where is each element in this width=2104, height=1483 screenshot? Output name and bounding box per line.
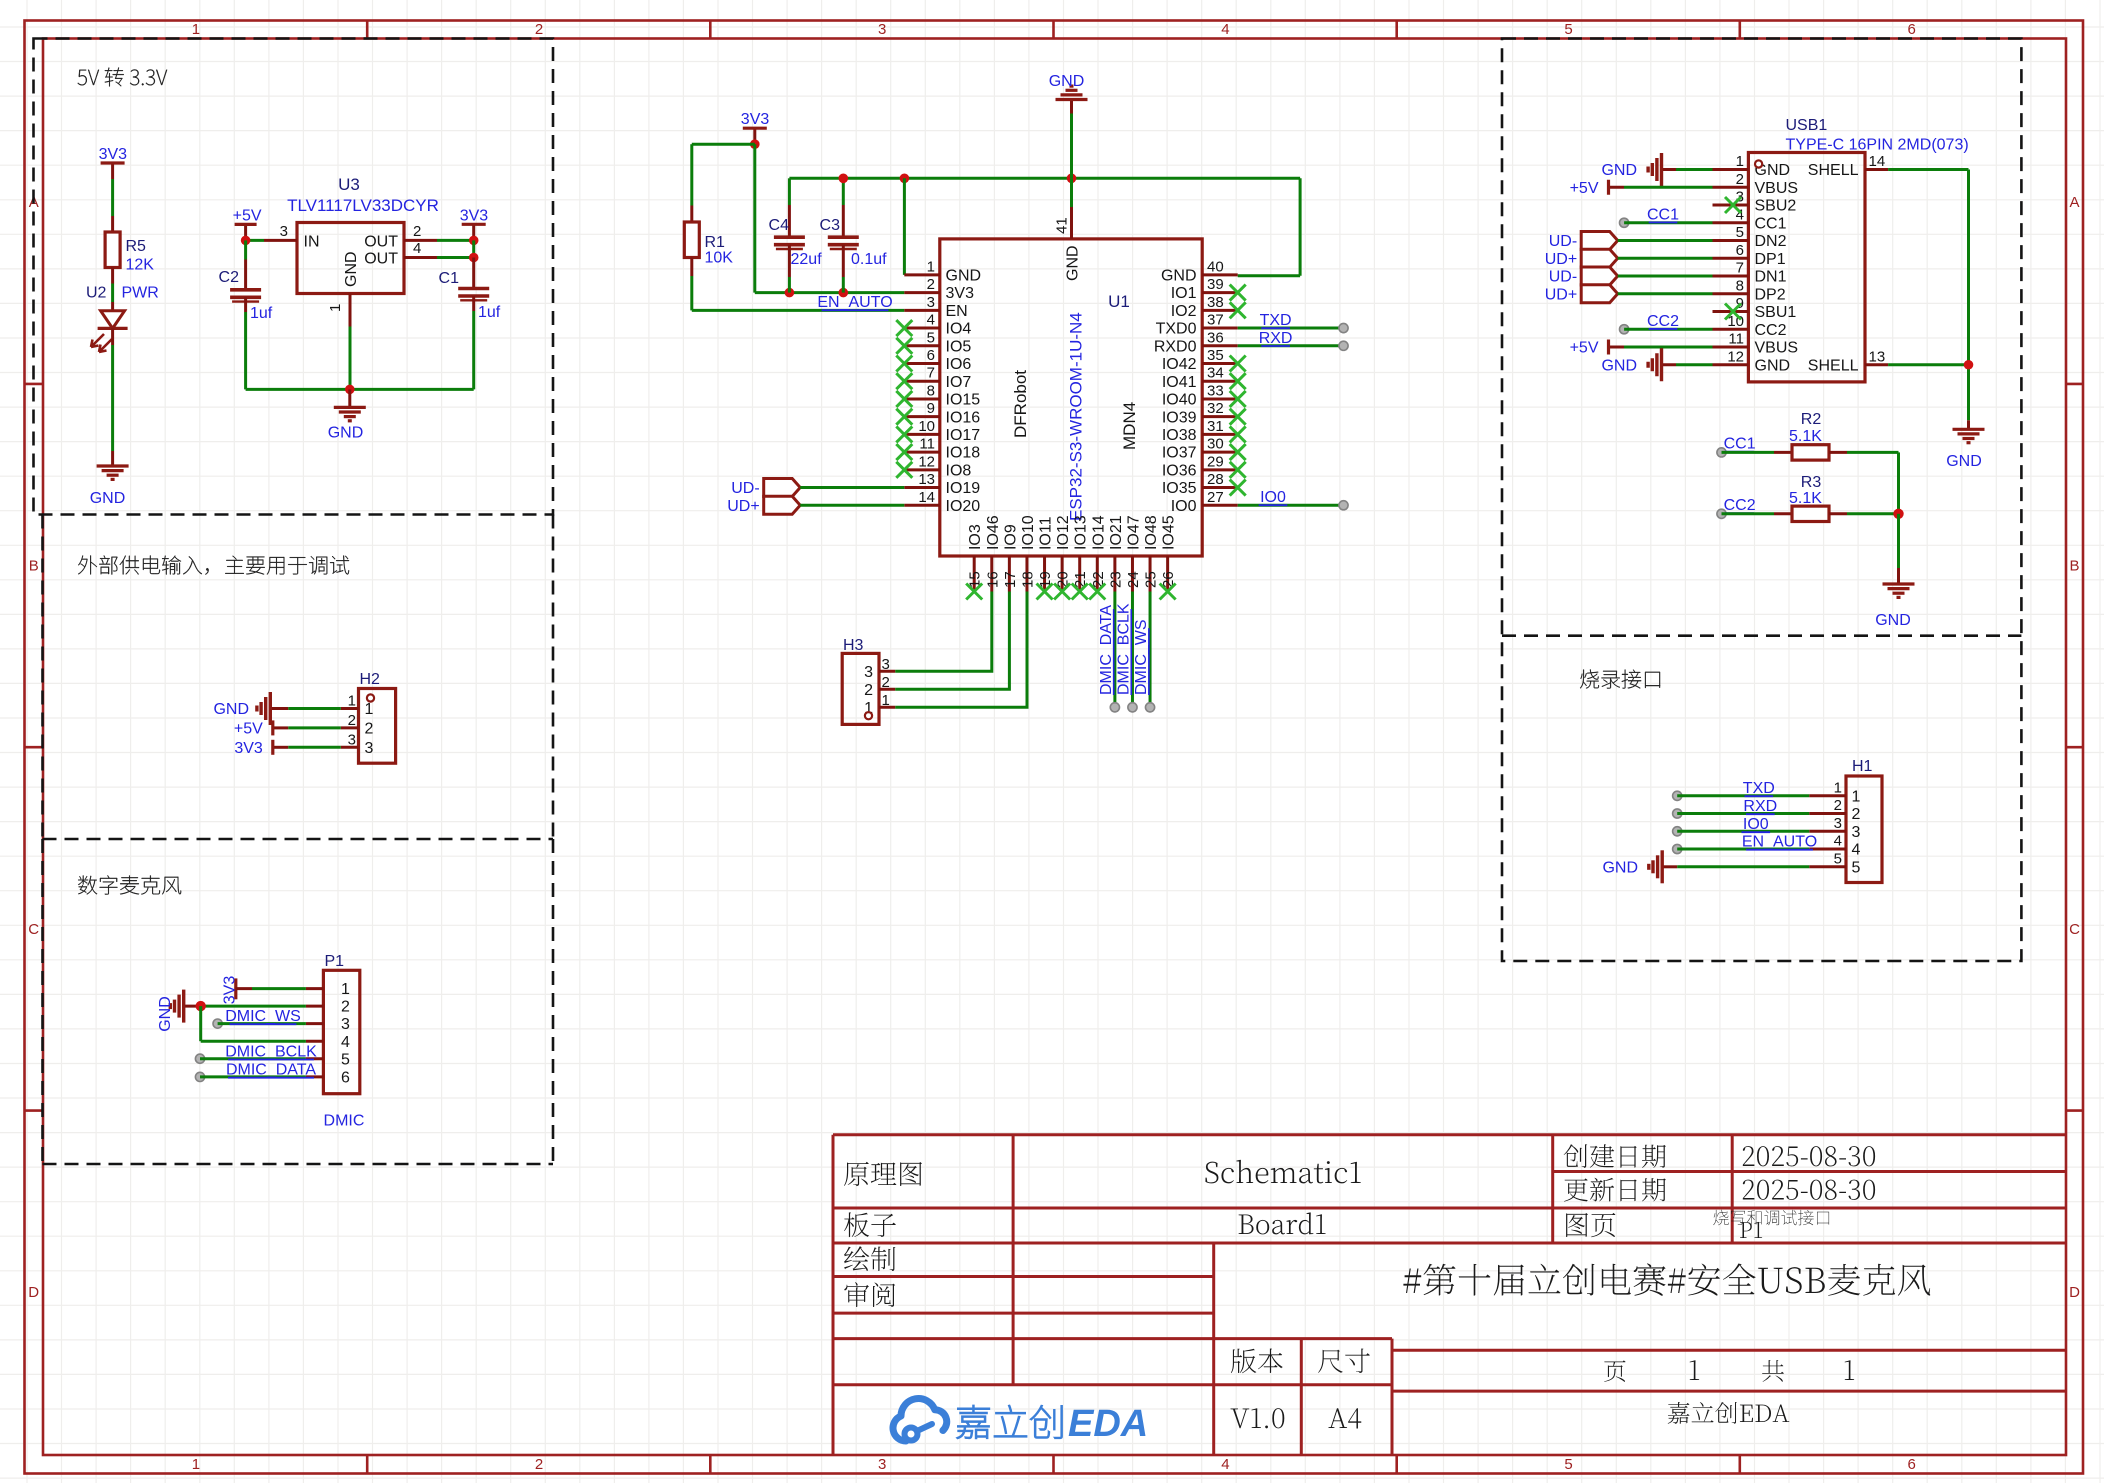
wire DMIC_BCLK (IO47): [1115, 592, 1137, 712]
svg-text:DP2: DP2: [1755, 286, 1786, 303]
wire GND top rail: [789, 174, 1300, 276]
svg-text:+5V: +5V: [234, 721, 263, 738]
wire GND bus (U3 section): [246, 327, 474, 395]
svg-text:U1: U1: [1108, 292, 1130, 311]
svg-text:IO0: IO0: [1743, 816, 1769, 833]
svg-text:1: 1: [927, 258, 935, 275]
wire CC1 to R2: [1717, 436, 1792, 458]
svg-text:UD-: UD-: [1549, 233, 1577, 250]
svg-text:GND: GND: [1946, 453, 1982, 470]
svg-text:GND: GND: [1602, 859, 1638, 876]
svg-text:OUT: OUT: [364, 251, 398, 268]
wire TXD: [1238, 312, 1348, 333]
svg-text:1: 1: [1736, 153, 1744, 170]
svg-text:2: 2: [348, 712, 356, 729]
svg-text:USB1: USB1: [1786, 117, 1828, 134]
svg-text:IO20: IO20: [946, 498, 981, 515]
svg-text:H1: H1: [1852, 758, 1873, 775]
svg-text:25: 25: [1143, 571, 1160, 588]
port flag UD- (DN2): [1549, 232, 1618, 251]
svg-text:40: 40: [1207, 258, 1224, 275]
wire GND to P1 pin2 and pin4: [196, 1001, 306, 1041]
svg-text:29: 29: [1207, 453, 1224, 470]
no-connect mark SBU1: [1725, 304, 1741, 320]
svg-text:17: 17: [1002, 571, 1019, 588]
svg-text:SHELL: SHELL: [1808, 162, 1859, 179]
wire IO0: [1238, 489, 1348, 510]
svg-text:CC1: CC1: [1724, 436, 1756, 453]
wire H3 pin2 to IO9: [895, 592, 1009, 690]
svg-text:+5V: +5V: [1570, 340, 1599, 357]
regulator U3 TLV1117LV33DCYR: [264, 175, 439, 327]
wire 3V3 to H2 pin3: [288, 746, 341, 749]
svg-text:+5V: +5V: [233, 207, 262, 224]
ground flag GND (H1 pin5): [1602, 850, 1677, 883]
wire U3 OUT pin2 to 3V3: [437, 236, 479, 246]
wire SHELL to GND: [1888, 170, 1973, 421]
wire R3 to GND: [1829, 509, 1904, 568]
wire 3V3 to R5: [111, 179, 114, 232]
svg-text:1: 1: [341, 981, 350, 998]
svg-text:C4: C4: [769, 217, 790, 234]
resistor R5: [105, 232, 154, 274]
net label EN_AUTO: [817, 294, 892, 311]
svg-text:TXD: TXD: [1743, 780, 1775, 797]
svg-text:2: 2: [413, 223, 421, 240]
wire U2 to GND: [111, 345, 114, 451]
svg-text:18: 18: [1019, 571, 1036, 588]
svg-text:10: 10: [918, 418, 935, 435]
wire H3 pin3 to IO46: [895, 592, 992, 672]
svg-text:GND: GND: [213, 701, 249, 718]
svg-text:39: 39: [1207, 276, 1224, 293]
svg-text:DMIC: DMIC: [324, 1113, 365, 1130]
svg-text:12: 12: [1727, 348, 1744, 365]
svg-text:3: 3: [280, 223, 288, 240]
port flag UD+ (DP1): [1545, 249, 1618, 268]
svg-text:8: 8: [927, 382, 935, 399]
svg-text:R1: R1: [705, 234, 726, 251]
title block sheet: [1566, 1210, 1829, 1238]
svg-text:3: 3: [365, 740, 374, 757]
svg-text:3: 3: [1834, 815, 1842, 832]
svg-text:5: 5: [1564, 21, 1572, 38]
svg-text:R5: R5: [126, 238, 147, 255]
wire UD+ to DP1: [1618, 257, 1713, 260]
svg-text:5: 5: [1736, 224, 1744, 241]
LED U2 PWR: [86, 285, 159, 353]
svg-text:RXD0: RXD0: [1154, 338, 1197, 355]
svg-text:B: B: [29, 558, 39, 575]
power flag 3V3 (U3 output): [460, 207, 489, 240]
svg-text:PWR: PWR: [122, 285, 159, 302]
svg-text:5.1K: 5.1K: [1789, 428, 1822, 445]
svg-text:5: 5: [927, 329, 935, 346]
label DMIC: [324, 1113, 365, 1130]
svg-text:GND: GND: [1755, 357, 1791, 374]
svg-text:UD-: UD-: [731, 480, 759, 497]
wire CC2 to R3: [1717, 497, 1792, 518]
svg-text:6: 6: [341, 1070, 350, 1087]
port flag UD+ (DP2): [1545, 285, 1618, 304]
wire UD+ to IO20: [800, 504, 904, 507]
svg-text:4: 4: [413, 240, 421, 257]
svg-text:IO16: IO16: [946, 409, 981, 426]
module U1 ESP32-S3-WROOM-1U-N4: [904, 178, 1237, 591]
svg-text:RXD: RXD: [1259, 330, 1293, 347]
svg-text:2: 2: [535, 1456, 543, 1473]
wire UD- to DN2: [1618, 239, 1713, 242]
svg-text:IO19: IO19: [946, 480, 981, 497]
wire EN net: [692, 309, 905, 312]
title block vendor: [1668, 1402, 1790, 1424]
port flag UD- (IO19): [731, 479, 800, 498]
svg-text:4: 4: [1834, 833, 1842, 850]
svg-text:GND: GND: [343, 251, 360, 287]
svg-text:6: 6: [1908, 1456, 1916, 1473]
svg-text:SBU1: SBU1: [1755, 304, 1797, 321]
port flag UD+ (IO20): [727, 496, 800, 515]
svg-text:U3: U3: [338, 175, 360, 194]
svg-text:SBU2: SBU2: [1755, 198, 1797, 215]
svg-text:DMIC_WS: DMIC_WS: [225, 1008, 301, 1025]
connector H3: [842, 637, 895, 724]
no-connect marks U1 bottom pins: [966, 584, 1175, 600]
svg-text:1: 1: [1852, 788, 1861, 805]
svg-text:SHELL: SHELL: [1808, 357, 1859, 374]
wire C2 to GND bus: [244, 297, 247, 389]
svg-text:+5V: +5V: [1570, 180, 1599, 197]
svg-text:IO5: IO5: [946, 338, 972, 355]
svg-text:GND: GND: [1065, 245, 1082, 281]
title block version header: [1231, 1349, 1370, 1374]
no-connect marks U1 right pins: [1230, 285, 1246, 496]
svg-text:2: 2: [1834, 797, 1842, 814]
svg-text:22uf: 22uf: [791, 251, 823, 268]
svg-text:C: C: [2069, 921, 2080, 938]
svg-text:9: 9: [927, 400, 935, 417]
svg-text:27: 27: [1207, 489, 1224, 506]
svg-text:6: 6: [927, 347, 935, 364]
svg-text:GND: GND: [1049, 73, 1085, 90]
title block updated date: [1564, 1178, 1875, 1202]
svg-text:GND: GND: [1875, 612, 1911, 629]
svg-text:DMIC_DATA: DMIC_DATA: [1098, 605, 1115, 695]
svg-text:IO21: IO21: [1108, 515, 1125, 550]
wire GND to USB1 pin1: [1676, 168, 1713, 171]
svg-text:EN_AUTO: EN_AUTO: [817, 294, 892, 311]
svg-text:2: 2: [864, 682, 873, 699]
svg-text:32: 32: [1207, 400, 1224, 417]
svg-text:DN2: DN2: [1755, 233, 1787, 250]
svg-text:CC2: CC2: [1724, 497, 1756, 514]
svg-text:14: 14: [918, 489, 935, 506]
svg-text:CC1: CC1: [1755, 215, 1787, 232]
svg-text:28: 28: [1207, 471, 1224, 488]
wire 3V3 rail to pin2: [755, 144, 905, 297]
svg-text:GND: GND: [90, 490, 126, 507]
svg-text:DFRobot: DFRobot: [1011, 370, 1030, 438]
svg-text:1: 1: [192, 1456, 200, 1473]
svg-text:14: 14: [1869, 153, 1886, 170]
svg-text:C3: C3: [820, 217, 841, 234]
svg-text:GND: GND: [328, 425, 364, 442]
svg-text:RXD: RXD: [1743, 798, 1777, 815]
svg-text:IO6: IO6: [946, 356, 972, 373]
svg-text:GND: GND: [946, 268, 982, 285]
svg-text:4: 4: [1852, 842, 1861, 859]
title block created date: [1564, 1144, 1875, 1168]
wire UD+ to DP2: [1618, 292, 1713, 295]
wire 3V3 to P1 pin1: [252, 987, 306, 990]
wire GND to H1 pin5: [1677, 865, 1809, 868]
svg-text:3: 3: [927, 294, 935, 311]
node U3 IN junction: [241, 236, 264, 246]
svg-text:1: 1: [192, 21, 200, 38]
power flag +5V (USB1 pin2): [1570, 180, 1624, 197]
wire EN_AUTO to H1 pin4: [1673, 834, 1818, 854]
wire 3V3 to R1: [692, 144, 755, 222]
svg-text:DMIC_WS: DMIC_WS: [1133, 619, 1150, 695]
capacitor C3 0.1uf: [820, 178, 888, 292]
title block board name: [844, 1212, 1325, 1237]
svg-text:7: 7: [927, 365, 935, 382]
svg-text:C2: C2: [219, 269, 240, 286]
svg-text:3V3: 3V3: [741, 111, 770, 128]
svg-text:1: 1: [327, 304, 344, 312]
wire CC2 to USB1 pin10: [1620, 313, 1713, 334]
svg-text:IO14: IO14: [1090, 515, 1107, 550]
svg-text:3V3: 3V3: [946, 285, 975, 302]
section box digital microphone: [43, 839, 554, 1164]
wire DMIC_BCLK to P1 pin5: [195, 1043, 317, 1063]
section box 5V to 3.3V: [34, 39, 554, 515]
svg-text:IO39: IO39: [1162, 409, 1197, 426]
svg-text:C1: C1: [439, 270, 460, 287]
power flag +5V (H2 pin2): [234, 720, 288, 737]
svg-text:4: 4: [1221, 21, 1229, 38]
svg-text:EN: EN: [946, 303, 968, 320]
wire +5V to USB1 pin11: [1624, 346, 1713, 349]
svg-text:3: 3: [878, 21, 886, 38]
svg-text:1uf: 1uf: [478, 304, 501, 321]
svg-text:2: 2: [1852, 806, 1861, 823]
svg-text:6: 6: [1908, 21, 1916, 38]
ground GND (top, inverted): [1049, 73, 1088, 178]
title block text schematic name: [844, 1160, 1361, 1186]
svg-text:3: 3: [1852, 824, 1861, 841]
svg-text:IO0: IO0: [1171, 498, 1197, 515]
svg-text:IO36: IO36: [1162, 462, 1197, 479]
wire RXD: [1238, 330, 1348, 351]
svg-text:12K: 12K: [126, 257, 155, 274]
power flag +5V (USB1 pin11): [1570, 340, 1624, 357]
wire +5V junction to C2: [244, 240, 247, 289]
svg-text:1uf: 1uf: [250, 305, 273, 322]
svg-text:TXD: TXD: [1260, 312, 1292, 329]
svg-text:R3: R3: [1801, 474, 1822, 491]
svg-text:36: 36: [1207, 329, 1224, 346]
svg-text:24: 24: [1125, 571, 1142, 588]
svg-text:3V3: 3V3: [234, 740, 263, 757]
svg-text:13: 13: [1869, 348, 1886, 365]
wire R2 to GND net: [1829, 452, 1899, 513]
wire DMIC_DATA (IO21): [1098, 592, 1120, 712]
svg-text:7: 7: [1736, 260, 1744, 277]
svg-text:DP1: DP1: [1755, 251, 1786, 268]
svg-text:GND: GND: [1601, 357, 1637, 374]
svg-text:IO0: IO0: [1260, 489, 1286, 506]
port flag UD- (DN1): [1549, 267, 1618, 286]
connector H1: [1809, 758, 1882, 883]
svg-text:2: 2: [535, 21, 543, 38]
svg-text:H2: H2: [360, 671, 381, 688]
svg-text:IO11: IO11: [1038, 516, 1055, 550]
svg-text:37: 37: [1207, 312, 1224, 329]
svg-text:IO9: IO9: [1002, 524, 1019, 550]
svg-text:6: 6: [1736, 242, 1744, 259]
svg-text:11: 11: [1728, 331, 1744, 348]
svg-text:B: B: [2069, 558, 2079, 575]
svg-text:CC2: CC2: [1755, 322, 1787, 339]
svg-text:35: 35: [1207, 347, 1224, 364]
ground flag GND (P1 pin2): [157, 990, 201, 1032]
connector P1 DMIC: [306, 953, 360, 1094]
wire TXD to H1 pin1: [1673, 780, 1810, 800]
svg-text:CC2: CC2: [1647, 313, 1679, 330]
section box external power input: [43, 515, 554, 840]
ground GND (USB shell): [1946, 420, 1984, 470]
svg-text:R2: R2: [1801, 411, 1822, 428]
svg-text:DN1: DN1: [1755, 269, 1787, 286]
svg-text:1: 1: [1834, 779, 1842, 796]
wire CC1 to USB1 pin4: [1620, 206, 1713, 227]
wire UD- to DN1: [1618, 275, 1713, 278]
svg-text:IO38: IO38: [1162, 427, 1197, 444]
power flag 3V3 (EN pullup): [741, 111, 770, 149]
svg-text:IO47: IO47: [1125, 515, 1142, 550]
svg-text:3V3: 3V3: [222, 976, 239, 1005]
svg-text:IO8: IO8: [946, 462, 972, 479]
svg-text:3: 3: [348, 731, 356, 748]
svg-text:GND: GND: [157, 996, 174, 1032]
title block version value: [1231, 1408, 1362, 1428]
ground GND (CC resistors): [1875, 568, 1914, 629]
svg-text:12: 12: [918, 453, 935, 470]
svg-text:TLV1117LV33DCYR: TLV1117LV33DCYR: [287, 196, 439, 215]
resistor R2 5.1K: [1789, 411, 1829, 460]
svg-text:1: 1: [348, 693, 356, 710]
svg-text:IO48: IO48: [1143, 515, 1160, 550]
svg-text:VBUS: VBUS: [1755, 340, 1799, 357]
svg-text:13: 13: [918, 471, 935, 488]
svg-text:IO4: IO4: [946, 321, 972, 338]
svg-text:41: 41: [1054, 217, 1071, 234]
ground flag GND (USB1 pin1): [1601, 153, 1676, 186]
svg-text:1: 1: [365, 701, 374, 718]
svg-text:IO35: IO35: [1162, 480, 1197, 497]
svg-text:10K: 10K: [705, 250, 734, 267]
svg-text:C: C: [28, 921, 39, 938]
svg-text:3: 3: [878, 1456, 886, 1473]
svg-text:IO37: IO37: [1162, 445, 1197, 462]
svg-text:GND: GND: [1161, 268, 1197, 285]
svg-text:IO12: IO12: [1055, 515, 1072, 550]
svg-text:5: 5: [1852, 859, 1861, 876]
title block drawn by: [844, 1246, 895, 1271]
resistor R3 5.1K: [1789, 474, 1829, 522]
wire DMIC_DATA to P1 pin6: [195, 1062, 316, 1082]
svg-text:D: D: [2069, 1284, 2080, 1301]
svg-text:MDN4: MDN4: [1120, 402, 1139, 450]
svg-text:IO3: IO3: [967, 524, 984, 550]
wire GND to USB1 pin12: [1676, 363, 1713, 366]
wire U3 OUT pin4 to 3V3: [437, 240, 479, 262]
svg-text:D: D: [28, 1284, 39, 1301]
wire DMIC_WS (IO48): [1133, 592, 1155, 712]
svg-text:23: 23: [1107, 571, 1124, 588]
connector USB1 TYPE-C: [1713, 117, 1969, 382]
wire DMIC_WS to P1 pin3: [213, 1008, 306, 1028]
svg-text:U2: U2: [86, 285, 107, 302]
svg-text:4: 4: [341, 1034, 350, 1051]
svg-text:31: 31: [1207, 418, 1224, 435]
svg-text:UD+: UD+: [727, 498, 759, 515]
svg-text:IN: IN: [304, 233, 320, 250]
svg-text:TXD0: TXD0: [1156, 321, 1197, 338]
svg-text:2: 2: [1736, 171, 1744, 188]
svg-text:P1: P1: [325, 953, 345, 970]
svg-text:EDA: EDA: [1068, 1403, 1148, 1445]
svg-text:1: 1: [882, 692, 890, 709]
svg-text:2: 2: [365, 721, 374, 738]
wire RXD to H1 pin2: [1673, 798, 1810, 818]
svg-text:DMIC_BCLK: DMIC_BCLK: [225, 1043, 317, 1060]
wire R5 to U2: [111, 268, 114, 311]
svg-text:4: 4: [1221, 1456, 1229, 1473]
wire +5V to USB1 pin2: [1624, 186, 1713, 189]
connector H2: [341, 671, 396, 763]
power flag 3V3 (H2 pin3): [234, 740, 288, 757]
svg-text:IO45: IO45: [1161, 515, 1178, 550]
svg-text:DMIC_BCLK: DMIC_BCLK: [1115, 603, 1132, 695]
svg-text:IO40: IO40: [1162, 392, 1197, 409]
svg-text:IO1: IO1: [1171, 285, 1197, 302]
power flag +5V (U3 input): [233, 207, 262, 240]
wire IO0 to H1 pin3: [1673, 816, 1810, 836]
ground GND (U3 section): [328, 389, 366, 441]
svg-text:3: 3: [882, 656, 890, 673]
svg-text:H3: H3: [843, 637, 864, 654]
wire +5V to H2 pin2: [288, 726, 341, 729]
svg-text:IO18: IO18: [946, 445, 981, 462]
svg-text:IO42: IO42: [1162, 356, 1197, 373]
wire UD- to IO19: [800, 486, 904, 489]
svg-text:2: 2: [882, 674, 890, 691]
svg-text:2: 2: [927, 276, 935, 293]
svg-text:34: 34: [1207, 365, 1224, 382]
title block reviewed by: [844, 1282, 895, 1307]
svg-text:5: 5: [1564, 1456, 1572, 1473]
ground GND (LED branch): [90, 451, 129, 507]
svg-text:DMIC_DATA: DMIC_DATA: [226, 1062, 316, 1079]
svg-text:UD+: UD+: [1545, 286, 1577, 303]
svg-text:EN_AUTO: EN_AUTO: [1742, 834, 1817, 851]
svg-text:3V3: 3V3: [99, 146, 128, 163]
ground flag GND (USB1 pin12): [1601, 348, 1676, 381]
resistor R1 10K: [684, 222, 733, 267]
svg-text:VBUS: VBUS: [1755, 180, 1799, 197]
